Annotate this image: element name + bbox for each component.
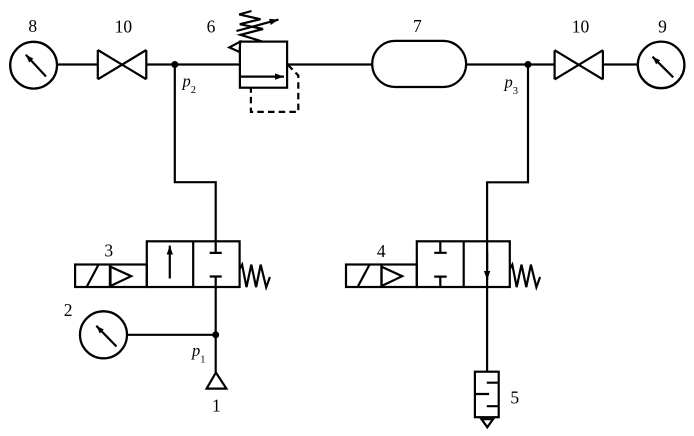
pressure gauge 2: [64, 300, 127, 358]
svg-text:2: 2: [64, 300, 73, 320]
wire valve 3 to source 1: [215, 287, 217, 373]
shutoff valve 10 (left): [98, 16, 147, 79]
svg-text:p2: p2: [182, 71, 197, 96]
pressure gauge 9: [638, 16, 685, 88]
wire gauge8 to valve10 left: [57, 63, 98, 65]
valve 4 flow arrow (down): [486, 252, 488, 280]
node p2: [171, 61, 196, 96]
air source 1: [207, 373, 227, 416]
regulator 6 internal flow arrow: [240, 75, 284, 77]
svg-text:6: 6: [207, 16, 216, 36]
wire receiver 7 to valve10 right: [466, 63, 554, 65]
svg-text:4: 4: [377, 241, 386, 261]
wire p3 branch down through valve 4 to throttle 5: [487, 65, 528, 372]
svg-text:9: 9: [658, 16, 667, 36]
shutoff valve 10 (right): [555, 16, 603, 79]
valve 3 blocked port bottom: [210, 277, 222, 288]
svg-text:7: 7: [413, 16, 422, 36]
regulator 6 spring: [239, 11, 263, 41]
wire regulator 6 to receiver 7: [287, 63, 372, 65]
valve 4 blocked port bottom: [434, 277, 447, 287]
svg-text:p3: p3: [504, 72, 519, 97]
regulator 6 pilot dashed line: [251, 65, 298, 112]
wire p2 branch down to valve 3: [175, 65, 216, 242]
valve 4 body: [417, 241, 510, 287]
valve 3 pilot triangle: [111, 267, 132, 286]
valve 4 solenoid actuator: [346, 265, 417, 288]
svg-text:8: 8: [28, 16, 37, 36]
node p3: [504, 61, 532, 97]
svg-text:p1: p1: [191, 341, 206, 366]
throttle/silencer 5: [475, 372, 519, 418]
valve 4 return spring: [510, 265, 540, 288]
exhaust triangle of 5: [482, 419, 494, 427]
valve 3 return spring: [240, 265, 270, 288]
svg-text:3: 3: [104, 241, 113, 261]
air receiver 7: [372, 16, 466, 87]
valve 3 flow arrow (open position): [169, 246, 171, 279]
svg-text:1: 1: [212, 396, 221, 416]
svg-text:10: 10: [572, 16, 590, 36]
node p1: [191, 331, 219, 365]
wire gauge 2 to node p1: [127, 334, 216, 336]
valve 4 pilot triangle: [382, 267, 403, 286]
svg-text:5: 5: [510, 388, 519, 408]
svg-text:10: 10: [115, 16, 133, 36]
wire valve10 right to gauge 9: [603, 63, 638, 65]
valve 3 solenoid actuator: [75, 265, 147, 288]
regulator 6 vent triangle: [229, 42, 240, 52]
valve 4 blocked port top: [434, 241, 447, 253]
valve 3 blocked port top: [210, 241, 222, 253]
valve 3 body: [147, 241, 240, 287]
wire valve10 left to regulator 6: [146, 63, 240, 65]
pressure gauge 8: [10, 16, 57, 88]
pressure regulator 6 : body: [240, 42, 287, 88]
regulator 6 adjustment arrow: [237, 20, 279, 31]
